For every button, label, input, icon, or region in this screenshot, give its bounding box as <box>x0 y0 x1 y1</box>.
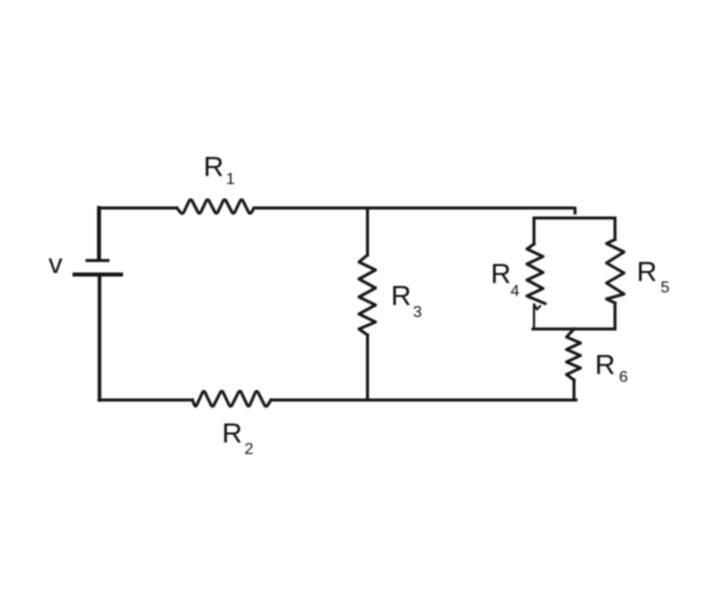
wire: R3 bottom lead to bottom rail <box>366 335 369 400</box>
svg-text:R: R <box>595 349 615 380</box>
wire: bottom rail right segment (R2 to R6 foot) <box>271 399 576 402</box>
wire: R6 bottom lead to bottom rail <box>573 380 576 400</box>
svg-text:3: 3 <box>413 304 422 321</box>
svg-text:R: R <box>491 258 511 289</box>
svg-text:5: 5 <box>661 280 670 297</box>
svg-text:R: R <box>391 280 411 311</box>
wire: battery positive lead (vertical) <box>97 208 101 259</box>
resistor R3 <box>359 255 376 335</box>
svg-text:4: 4 <box>511 283 520 300</box>
wire: bottom rail left segment (battery - to R2) <box>99 399 193 402</box>
resistor R2 <box>193 391 272 406</box>
battery V: long plate <box>75 273 122 277</box>
wire: top rail left segment (battery + to R1) <box>99 207 177 210</box>
battery V: short plate <box>87 259 108 262</box>
wire: R5 bottom lead <box>614 303 617 329</box>
wire: battery negative lead (vertical to bottom rail) <box>98 276 102 400</box>
wire: R4 top lead <box>533 218 536 244</box>
resistor R5 <box>607 240 625 304</box>
svg-text:6: 6 <box>619 369 628 386</box>
wire: parallel group bottom rail <box>533 328 615 331</box>
wire: R3 top lead from top rail <box>366 208 369 255</box>
wire: top rail right segment (R1 to parallel group) with end tick <box>254 208 575 213</box>
wire: parallel group top rail <box>534 217 615 220</box>
svg-text:R: R <box>204 151 224 182</box>
svg-text:v: v <box>49 248 63 279</box>
svg-text:R: R <box>222 418 242 449</box>
svg-text:1: 1 <box>226 171 235 188</box>
resistor R6 <box>567 329 581 380</box>
wire: R5 top lead <box>614 218 617 240</box>
wire: R4 bottom lead with tick <box>534 305 540 330</box>
resistor R4 <box>527 244 545 304</box>
svg-text:2: 2 <box>245 441 254 458</box>
resistor R1 <box>177 200 254 214</box>
svg-text:R: R <box>637 256 657 287</box>
